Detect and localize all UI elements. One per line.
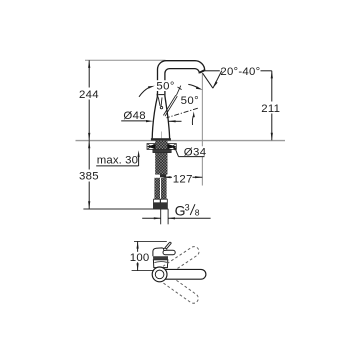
svg-text:211: 211 — [261, 103, 280, 115]
svg-text:244: 244 — [79, 89, 99, 101]
svg-text:127: 127 — [173, 173, 193, 185]
label 50 deg (upper) — [156, 80, 176, 91]
extension line top (lever tip level) — [134, 240, 167, 242]
dimension diameter 48 — [121, 110, 181, 122]
dimension max. 30 — [96, 150, 140, 166]
dimension 100 — [129, 241, 150, 270]
swivel spout dashed (lower position) — [163, 275, 201, 306]
svg-text:8: 8 — [195, 208, 200, 218]
collar dark band — [153, 256, 168, 260]
collar seam — [154, 261, 167, 264]
up arrow below axis — [191, 116, 194, 125]
hose nuts — [153, 203, 161, 209]
svg-text:50°: 50° — [156, 81, 174, 93]
label diameter 34 with leader — [170, 145, 206, 159]
spout (plan, solid) — [160, 269, 206, 279]
swivel spout dashed (upper position) — [163, 245, 201, 275]
extension line from spout tip (vertical) — [201, 73, 203, 186]
extension line bottom (spout axis level) — [132, 270, 154, 272]
svg-text:20°-40°: 20°-40° — [220, 66, 260, 78]
horseshoe washer right — [168, 144, 177, 150]
20-40 degree V indicator at spout tip — [203, 71, 222, 89]
hose end extension line — [83, 208, 168, 210]
G 3/8 thread extension lines — [160, 209, 162, 224]
dimension 211 — [261, 71, 283, 141]
horseshoe washer left — [147, 144, 155, 150]
svg-text:3: 3 — [185, 202, 190, 212]
svg-text:Ø48: Ø48 — [123, 110, 146, 122]
countertop surface line — [76, 140, 286, 142]
svg-text:100: 100 — [130, 252, 150, 264]
dimension 127 — [163, 173, 202, 186]
dash-dot lever axis — [167, 108, 198, 118]
faucet body (front, small) — [153, 260, 167, 268]
tilted lever (thin open parallelogram) — [163, 86, 181, 117]
G 3/8 dimension line with arrows — [142, 217, 161, 219]
cartridge cap dome — [153, 248, 164, 256]
inner circle — [155, 270, 164, 279]
50-degree arc (upper left) with arrowhead — [139, 88, 149, 97]
dimension 385 — [78, 141, 100, 209]
body centerline tick — [160, 132, 162, 141]
leader line 20-40 — [205, 70, 220, 72]
dimension 244 — [78, 60, 100, 140]
faucet base dark band — [151, 138, 171, 140]
svg-text:385: 385 — [79, 170, 99, 182]
supply hoses — [154, 178, 160, 199]
spout tip outlet face — [200, 70, 205, 72]
svg-text:max. 30: max. 30 — [97, 155, 138, 167]
raised lever (diagonal thin outline) — [165, 242, 172, 248]
hose collars — [154, 199, 161, 203]
mounting shank braided column — [155, 141, 167, 175]
lever bar (front, small) — [163, 250, 175, 255]
50-degree arc (right) to extension line — [188, 84, 197, 87]
spout base circle — [152, 267, 167, 282]
svg-text:50°: 50° — [181, 95, 199, 107]
mounting nut — [153, 149, 172, 152]
lever slot details inside body — [156, 93, 164, 109]
extension line top (spout top level) — [85, 59, 166, 61]
label G 3/8 — [175, 202, 200, 218]
faucet spout + body outline — [152, 61, 205, 139]
